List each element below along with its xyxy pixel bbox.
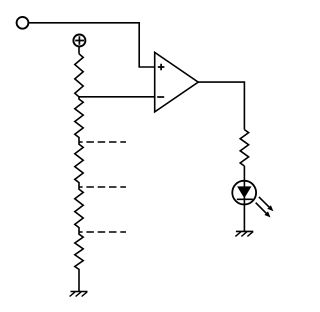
- resistor R1: [75, 54, 83, 97]
- node tap3 (dashed): [79, 231, 126, 233]
- wire (R6 to LED to ground): [243, 166, 245, 231]
- resistor R2: [75, 97, 83, 142]
- wire (junction node A to inverting input): [78, 96, 155, 98]
- wire (op-amp output): [198, 82, 244, 130]
- node tap2 (dashed): [79, 186, 126, 188]
- supply terminal +V: [73, 35, 85, 47]
- ground (right): [235, 231, 253, 236]
- op-amp U1: [155, 52, 199, 112]
- node tap1 (dashed): [79, 141, 126, 143]
- resistor R5: [75, 232, 83, 292]
- resistor R4: [75, 187, 83, 232]
- resistor R3: [75, 142, 83, 187]
- resistor R6: [240, 130, 248, 166]
- LED D1: [232, 181, 273, 218]
- wire (supply to resistor chain): [78, 47, 80, 54]
- wire (input terminal to op-amp non-inverting input): [28, 23, 154, 67]
- input terminal J1: [17, 17, 29, 29]
- ground (left): [70, 292, 88, 297]
